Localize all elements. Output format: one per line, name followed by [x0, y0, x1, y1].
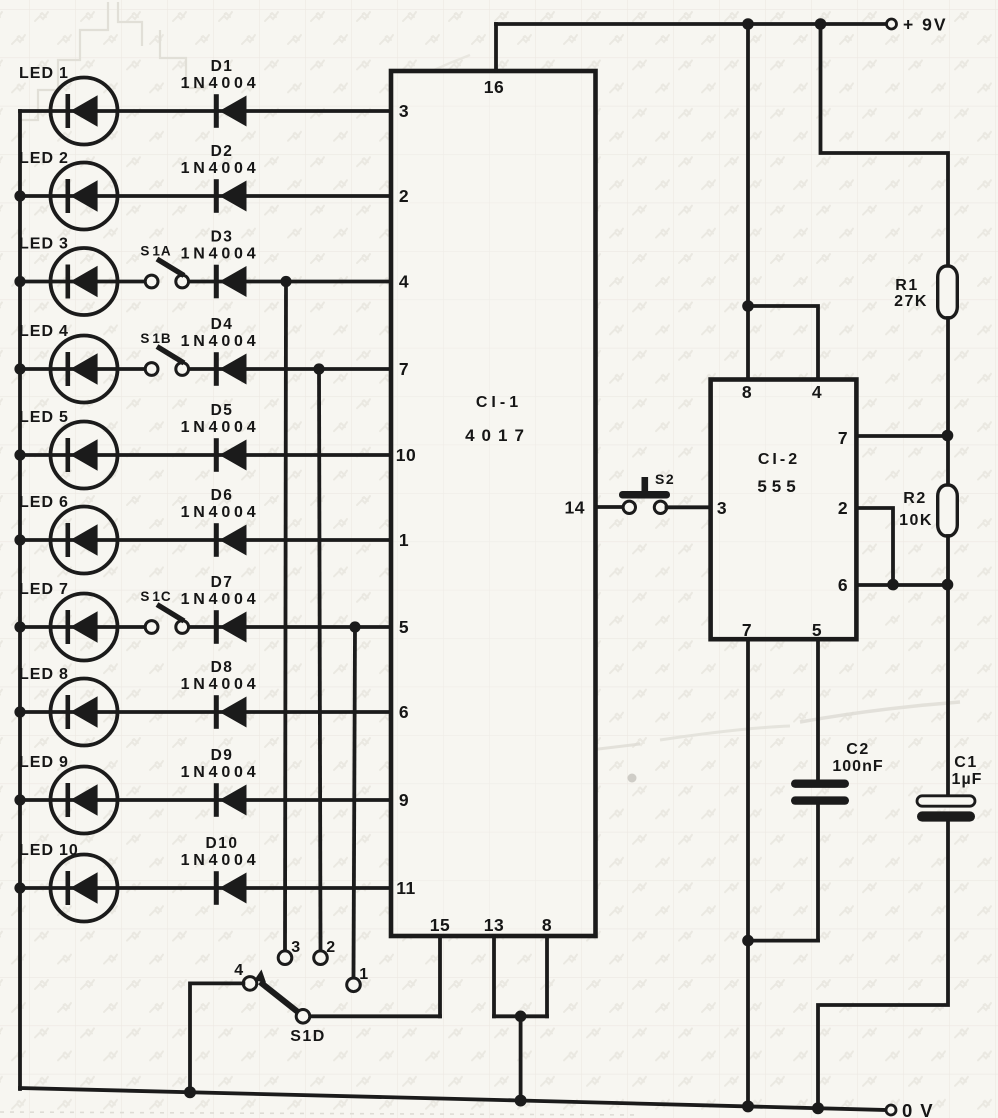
pushbutton S2: [619, 477, 670, 514]
svg-text:3: 3: [291, 939, 300, 956]
svg-text:LED8: LED8: [19, 666, 69, 683]
junction rail row 5: [14, 449, 25, 460]
S1D terminal 3: [278, 951, 292, 965]
svg-text:9: 9: [399, 790, 409, 810]
svg-text:S1A: S1A: [140, 244, 171, 259]
svg-text:R1: R1: [895, 277, 918, 294]
junction pin6/R2/C1: [942, 579, 954, 591]
IC CI-1 4017 body: [391, 71, 596, 936]
junction row 7 to S1D terminal 1: [349, 621, 360, 632]
svg-text:15: 15: [430, 915, 450, 935]
svg-text:+ 9V: + 9V: [903, 15, 948, 35]
svg-text:D3: D3: [211, 229, 234, 246]
svg-text:1N4004: 1N4004: [181, 852, 260, 869]
svg-text:1N4004: 1N4004: [181, 504, 260, 521]
diode D4: [214, 352, 247, 386]
svg-text:6: 6: [399, 702, 409, 722]
svg-text:LED5: LED5: [19, 409, 69, 426]
wire C1 down and left to 0V rail: [818, 822, 948, 1107]
S1D terminal 4: [243, 977, 257, 991]
capacitor C2: [791, 780, 849, 805]
junction row 3 to S1D terminal 3: [280, 276, 291, 287]
terminal +9V: [887, 19, 897, 29]
svg-text:LED6: LED6: [19, 494, 69, 511]
wire C2 down: [816, 805, 820, 941]
svg-text:D6: D6: [211, 487, 234, 504]
junction rail row 3: [14, 276, 25, 287]
switch S1C: [145, 605, 188, 634]
IC CI-2 555 body: [711, 380, 857, 640]
wire row 7 junction down to S1D terminal 1: [354, 627, 356, 978]
LED 9: [51, 767, 118, 834]
svg-text:1: 1: [359, 966, 368, 983]
wire row 4 junction down to S1D terminal 2: [319, 369, 321, 951]
wire S1D terminal4 to left: [190, 983, 243, 1092]
svg-text:7: 7: [399, 359, 409, 379]
svg-text:1µF: 1µF: [952, 771, 983, 788]
wire row 4: rail to switch: [20, 367, 146, 371]
diode D2: [214, 179, 247, 213]
resistor R1: [938, 266, 958, 318]
wire row 3 junction down to S1D terminal 3: [285, 282, 286, 951]
svg-text:14: 14: [565, 498, 585, 518]
svg-text:LED4: LED4: [19, 323, 69, 340]
svg-text:2: 2: [399, 186, 409, 206]
junction pin7 line / C2: [742, 935, 754, 947]
capacitor C1 electrolytic: [917, 796, 975, 822]
diode D7: [214, 610, 247, 644]
svg-text:1N4004: 1N4004: [181, 246, 260, 263]
LED 4: [51, 336, 118, 403]
svg-text:1: 1: [399, 530, 409, 550]
resistor R2: [938, 485, 958, 536]
wire CI-1 pin14 to S2: [596, 505, 624, 509]
svg-text:D2: D2: [211, 143, 234, 160]
junction rail row 7: [14, 621, 25, 632]
svg-text:LED9: LED9: [19, 754, 69, 771]
svg-text:1N4004: 1N4004: [181, 419, 260, 436]
svg-text:13: 13: [484, 915, 504, 935]
wire S2 to 555 pin 3: [667, 505, 711, 509]
LED 5: [51, 422, 118, 489]
junction top rail / R1 branch: [815, 18, 827, 30]
svg-text:D1: D1: [211, 58, 234, 75]
junction rail / C1 return: [812, 1102, 824, 1114]
svg-text:7: 7: [838, 428, 848, 448]
wire CI-1 pin15 stub down: [438, 936, 442, 1016]
wire row 6: rail to CI-1 pin 1: [20, 538, 391, 542]
wire row 1: rail to CI-1 pin 3: [20, 109, 391, 113]
junction rail row 9: [14, 794, 25, 805]
junction row 4 to S1D terminal 2: [313, 363, 324, 374]
svg-text:LED3: LED3: [19, 236, 69, 253]
junction rail row 8: [14, 706, 25, 717]
terminal 0V: [886, 1105, 896, 1115]
diode D5: [214, 438, 247, 472]
wire CI-1 pin8 stub down: [545, 936, 549, 1016]
junction rail row 6: [14, 534, 25, 545]
svg-text:S1B: S1B: [140, 331, 171, 346]
wire +9V top rail: [496, 22, 887, 26]
svg-text:D7: D7: [211, 574, 234, 591]
junction R1/R2/pin7: [942, 430, 954, 442]
wire row 7: rail to switch: [20, 625, 146, 629]
svg-text:4017: 4017: [465, 426, 531, 445]
junction pin13/pin8: [515, 1011, 527, 1023]
svg-text:1N4004: 1N4004: [181, 160, 260, 177]
wire left vertical rail (LED common): [18, 111, 22, 1089]
LED 8: [51, 679, 118, 746]
svg-text:4: 4: [234, 962, 243, 979]
diode D6: [214, 523, 247, 557]
wire row 2: rail to CI-1 pin 2: [20, 194, 391, 198]
svg-text:LED2: LED2: [19, 150, 69, 167]
wire row 3: rail to switch: [20, 280, 146, 284]
svg-text:D8: D8: [211, 659, 234, 676]
svg-text:10: 10: [396, 445, 416, 465]
wire 555 pin 7: [856, 434, 948, 438]
junction rail row 4: [14, 363, 25, 374]
svg-text:D5: D5: [211, 402, 234, 419]
svg-text:6: 6: [838, 575, 848, 595]
S1D terminal 2: [314, 951, 328, 965]
svg-text:D4: D4: [211, 316, 234, 333]
wire 555 pin7 down to 0V rail: [746, 639, 750, 1105]
LED 1: [51, 78, 118, 145]
S1D common pole: [296, 1010, 310, 1024]
junction rail / pin13-8 branch: [515, 1095, 527, 1107]
svg-text:4: 4: [399, 272, 409, 292]
svg-text:1N4004: 1N4004: [181, 764, 260, 781]
svg-text:CI-2: CI-2: [758, 451, 800, 468]
wire top rail to R1: [821, 24, 949, 266]
svg-text:C2: C2: [846, 741, 869, 758]
S1D lever: [254, 970, 299, 1013]
LED 6: [51, 507, 118, 574]
svg-text:LED1: LED1: [19, 65, 69, 82]
wire CI-1 pin13 stub down: [492, 936, 496, 1016]
svg-text:S2: S2: [655, 471, 675, 487]
wire 555 pin 6: [856, 583, 948, 587]
svg-text:2: 2: [838, 498, 848, 518]
diode D10: [214, 871, 247, 905]
svg-text:3: 3: [717, 498, 727, 518]
svg-text:1N4004: 1N4004: [181, 676, 260, 693]
svg-text:C1: C1: [954, 754, 977, 771]
svg-text:5: 5: [399, 617, 409, 637]
LED 7: [51, 594, 118, 661]
wire row 7: switch to CI-1 pin 5: [189, 625, 391, 629]
switch S1A: [145, 259, 188, 288]
svg-text:1N4004: 1N4004: [181, 333, 260, 350]
LED 3: [51, 248, 118, 315]
wire row 4: switch to CI-1 pin 7: [189, 367, 391, 371]
LED 10: [51, 855, 118, 922]
svg-text:555: 555: [757, 477, 800, 496]
svg-text:100nF: 100nF: [832, 758, 883, 775]
junction rail row 2: [14, 190, 25, 201]
svg-text:R2: R2: [903, 490, 926, 507]
svg-text:1N4004: 1N4004: [181, 591, 260, 608]
svg-text:7: 7: [742, 620, 752, 640]
svg-text:3: 3: [399, 101, 409, 121]
svg-text:4: 4: [812, 382, 822, 402]
wire S1D common to pin15: [310, 1014, 441, 1018]
diode D8: [214, 695, 247, 729]
wire CI-1 pin16 stub: [494, 24, 498, 71]
junction pin2/pin6: [887, 579, 899, 591]
svg-text:8: 8: [542, 915, 552, 935]
svg-text:11: 11: [396, 878, 416, 898]
svg-text:D10: D10: [206, 835, 239, 852]
wire 555 pin5 down to C2: [816, 639, 820, 780]
switch S1B: [145, 347, 188, 376]
svg-text:8: 8: [742, 382, 752, 402]
svg-text:27K: 27K: [894, 293, 928, 310]
svg-text:D9: D9: [211, 747, 234, 764]
junction rail row 10: [14, 882, 25, 893]
wire pin13/8 junction down to 0V rail: [519, 1016, 523, 1100]
diode D1: [214, 94, 247, 128]
wire branch to 555 pin 4: [748, 306, 818, 380]
junction 555 pin8/pin4 branch: [742, 300, 754, 312]
diode D3: [214, 265, 247, 299]
svg-text:CI-1: CI-1: [476, 394, 522, 411]
junction rail / 555 pin7: [742, 1100, 754, 1112]
svg-text:LED10: LED10: [19, 842, 79, 859]
LED 2: [51, 163, 118, 230]
S1D terminal 1: [347, 978, 361, 992]
junction rail / S1D-4 branch: [184, 1086, 196, 1098]
wire 555 pin 2: [856, 508, 893, 585]
wire R2 down to pin6 junction: [946, 536, 950, 585]
diode D9: [214, 783, 247, 817]
wire row 9: rail to CI-1 pin 9: [20, 798, 391, 802]
svg-text:LED7: LED7: [19, 581, 69, 598]
svg-text:S1C: S1C: [140, 589, 171, 604]
wire pin6 junction down to C1: [946, 585, 950, 797]
svg-text:2: 2: [326, 939, 335, 956]
wire row 8: rail to CI-1 pin 6: [20, 710, 391, 714]
wire C2 to pin7 line: [748, 939, 818, 943]
junction top rail / 555 supply: [742, 18, 754, 30]
wire 0V bottom rail: [20, 1088, 886, 1110]
svg-text:1N4004: 1N4004: [181, 75, 260, 92]
svg-text:10K: 10K: [899, 512, 933, 529]
wire row 5: rail to CI-1 pin 10: [20, 453, 391, 457]
wire row 3: switch to CI-1 pin 4: [189, 280, 391, 284]
svg-text:16: 16: [484, 77, 504, 97]
wire top rail down to 555 pin 8: [746, 24, 750, 380]
wire row 10: rail to CI-1 pin 11: [20, 886, 391, 890]
svg-text:5: 5: [812, 620, 822, 640]
wire pin13 to pin8: [494, 1014, 547, 1018]
svg-text:S1D: S1D: [290, 1028, 326, 1045]
wire R1 to junction pin7: [946, 318, 950, 485]
